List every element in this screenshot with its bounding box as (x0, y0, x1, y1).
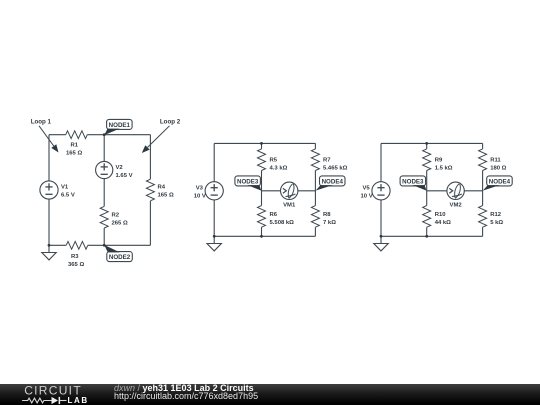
svg-text:265 Ω: 265 Ω (112, 221, 128, 227)
svg-text:1.65 V: 1.65 V (116, 173, 133, 179)
svg-text:NODE4: NODE4 (322, 179, 344, 186)
svg-text:5.465 kΩ: 5.465 kΩ (323, 165, 348, 171)
svg-text:NODE2: NODE2 (109, 254, 131, 261)
svg-text:165 Ω: 165 Ω (158, 193, 174, 199)
svg-text:LAB: LAB (68, 396, 89, 405)
svg-text:10 V: 10 V (194, 193, 206, 199)
svg-text:NODE3: NODE3 (402, 179, 424, 186)
svg-text:NODE3: NODE3 (237, 179, 259, 186)
svg-text:6.5 V: 6.5 V (61, 193, 75, 199)
svg-text:R6: R6 (270, 212, 278, 218)
svg-text:V3: V3 (196, 185, 204, 191)
svg-text:165 Ω: 165 Ω (66, 151, 82, 157)
svg-text:R12: R12 (490, 212, 502, 218)
svg-text:VM2: VM2 (450, 203, 463, 209)
svg-text:44 kΩ: 44 kΩ (435, 220, 451, 226)
svg-text:R1: R1 (71, 143, 79, 149)
svg-text:R2: R2 (112, 213, 120, 219)
svg-text:R11: R11 (490, 157, 501, 163)
svg-text:4.3 kΩ: 4.3 kΩ (270, 165, 288, 171)
svg-text:V5: V5 (363, 185, 371, 191)
svg-text:NODE1: NODE1 (109, 122, 131, 129)
svg-text:10 V: 10 V (361, 193, 373, 199)
svg-text:V2: V2 (116, 165, 124, 171)
svg-text:Loop 2: Loop 2 (160, 118, 181, 125)
svg-text:R4: R4 (158, 185, 166, 191)
svg-text:5.508 kΩ: 5.508 kΩ (270, 220, 295, 226)
svg-text:R5: R5 (270, 157, 278, 163)
svg-text:VM1: VM1 (283, 203, 296, 209)
svg-text:R10: R10 (435, 212, 447, 218)
svg-text:R8: R8 (323, 212, 331, 218)
svg-text:R3: R3 (71, 254, 79, 260)
svg-text:5 kΩ: 5 kΩ (490, 220, 503, 226)
svg-text:1.5 kΩ: 1.5 kΩ (435, 165, 453, 171)
svg-text:180 Ω: 180 Ω (490, 165, 506, 171)
svg-text:NODE4: NODE4 (489, 179, 511, 186)
svg-text:R7: R7 (323, 157, 331, 163)
svg-text:365 Ω: 365 Ω (68, 262, 84, 268)
svg-text:Loop 1: Loop 1 (31, 118, 52, 125)
svg-text:R9: R9 (435, 157, 443, 163)
svg-text:7 kΩ: 7 kΩ (323, 220, 336, 226)
svg-text:V1: V1 (61, 185, 69, 191)
